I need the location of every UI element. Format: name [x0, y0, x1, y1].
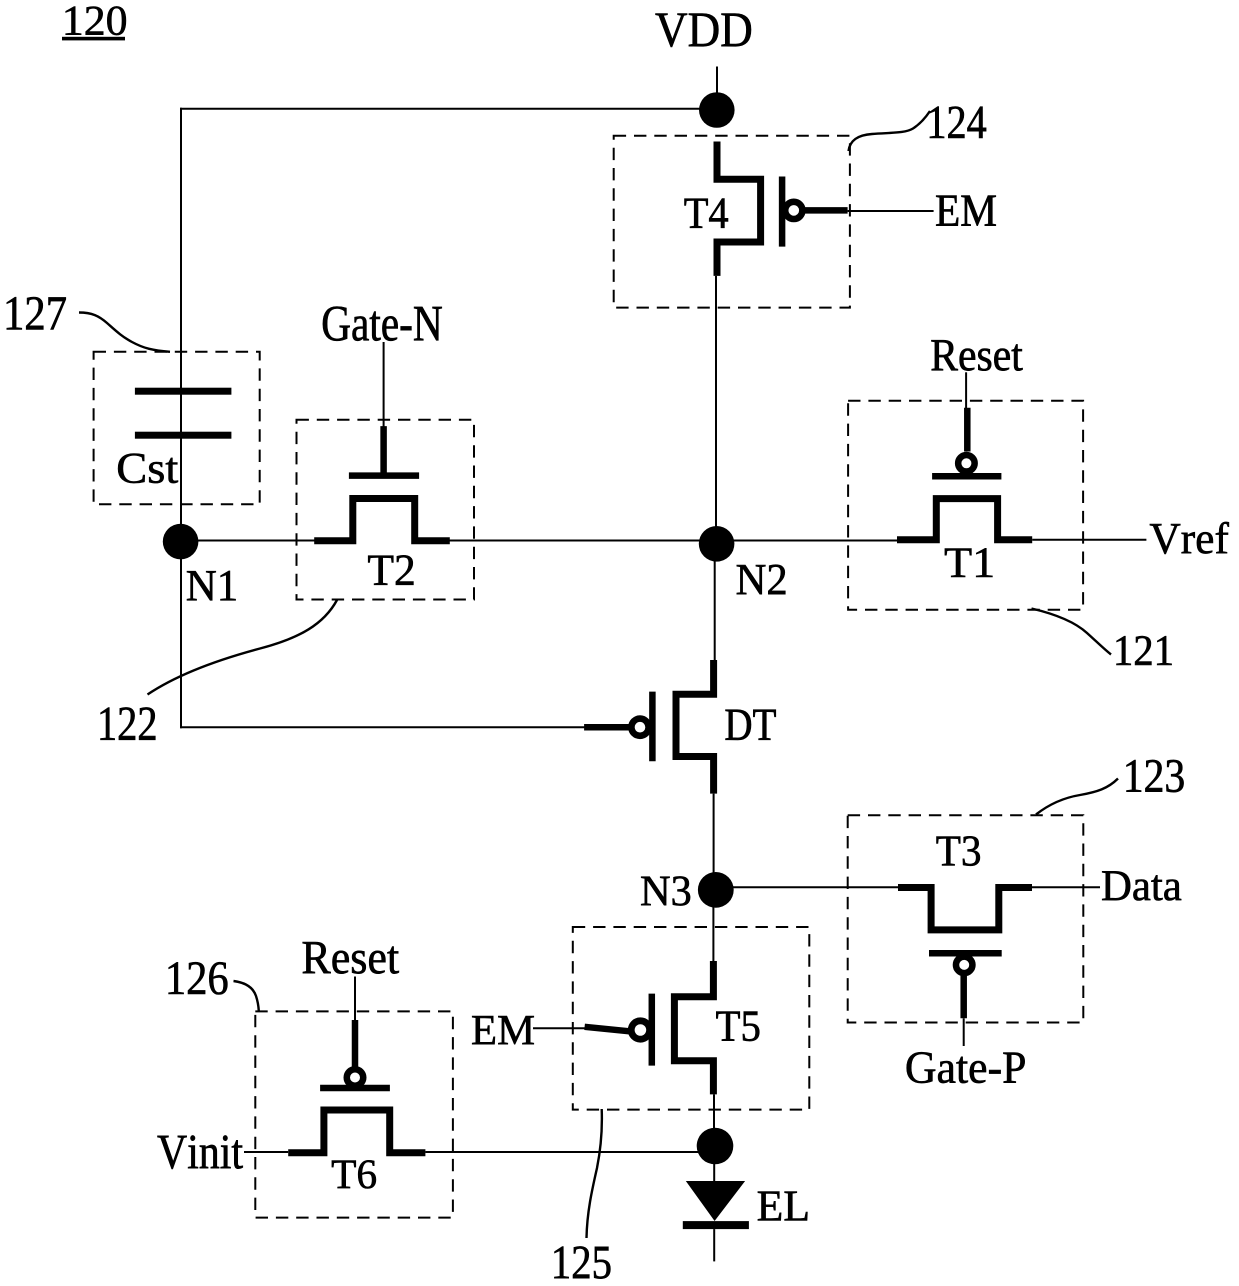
label Vref [1150, 522, 1229, 554]
node VDD junction [699, 92, 735, 128]
label T1 [945, 548, 993, 577]
wire top horizontal from VDD node to left branch [180, 108, 717, 110]
label 126 [169, 962, 228, 994]
wire T3 to Data [1032, 886, 1100, 888]
dashed box 124 (T4) [614, 136, 850, 308]
dashed box 123 (T3) [848, 815, 1084, 1022]
wire Gate-P lead [963, 1018, 965, 1046]
wire node to diode [713, 1146, 715, 1182]
wire N2 to T1 [717, 540, 898, 542]
label EL [758, 1192, 808, 1221]
transistor T2 [314, 426, 450, 541]
wire T1 to Vref [1032, 539, 1146, 541]
label T6 [332, 1160, 376, 1188]
wire left vertical branch x=181 [180, 108, 182, 728]
dashed box 121 (T1) [848, 401, 1083, 610]
leader 125 [587, 1109, 602, 1238]
label DT [726, 710, 776, 740]
wire N2 down to DT [714, 544, 716, 662]
leader 123 [1036, 779, 1118, 815]
label T5 [716, 1012, 759, 1042]
label T3 [937, 836, 980, 866]
label EM (T4) [936, 196, 996, 226]
node EL anode junction [697, 1128, 734, 1165]
capacitor Cst [135, 388, 232, 439]
label Data [1102, 871, 1181, 900]
label N2 [737, 565, 786, 595]
label 124 [930, 107, 986, 139]
wire Reset lead (T1) [965, 372, 967, 409]
label T2 [368, 555, 413, 585]
label 120 (figure reference, underlined) [62, 6, 126, 40]
label 122 [101, 707, 156, 739]
label 121 [1117, 636, 1172, 665]
label T4 [685, 199, 729, 228]
label Vinit [158, 1135, 243, 1169]
transistor T5 [585, 961, 714, 1094]
label 125 [554, 1246, 610, 1278]
label 123 [1127, 760, 1184, 792]
wire DT source down to N3 [713, 794, 715, 890]
transistor DT [584, 660, 714, 794]
dashed box 122 (T2) [297, 420, 475, 600]
wire EM to T5 gate [533, 1027, 585, 1029]
leader 121 [1032, 609, 1112, 655]
wire bottom horizontal to DT gate [180, 726, 585, 728]
VDD net label [656, 14, 752, 48]
wire VDD lead down to node [716, 67, 718, 111]
label 127 [7, 297, 66, 329]
node N3 [698, 872, 734, 908]
transistor T1 [897, 408, 1032, 540]
wire T6 to EL node [425, 1151, 714, 1153]
node N2 [699, 526, 735, 562]
label Gate-N [323, 307, 442, 341]
label N3 [641, 876, 690, 905]
transistor T6 [288, 1020, 425, 1153]
wire T5 source down to EL node [713, 1094, 715, 1148]
wire N3 down to T5 [712, 890, 714, 963]
label Gate-P [907, 1052, 1025, 1083]
diode EL cathode bar [683, 1221, 749, 1229]
wire Gate-N lead [383, 342, 385, 428]
label N1 [187, 571, 236, 600]
dashed box 127 (Cst) [94, 352, 260, 505]
leader 127 [79, 313, 170, 352]
leader 124 [849, 111, 931, 151]
wire T4 source down to N2 [715, 276, 717, 544]
transistor T4 [717, 142, 848, 276]
diode EL (triangle) [687, 1182, 744, 1221]
leader 122 [148, 600, 338, 695]
wire N1 to T2 [181, 540, 317, 542]
wire N3 to T3 [716, 886, 898, 888]
label Reset (T6) [303, 942, 399, 974]
wire T2 to N2 [449, 540, 717, 542]
transistor T3 [898, 888, 1032, 1019]
label EM (T5) [472, 1016, 534, 1044]
dashed box 126 (T6) [255, 1011, 453, 1217]
wire T4 to EM [848, 210, 934, 212]
wire Reset lead (T6) [354, 977, 356, 1022]
leader 126 [234, 981, 259, 1011]
node N1 [163, 524, 199, 560]
wire EL cathode down [713, 1229, 715, 1261]
wire Vinit to T6 [244, 1151, 288, 1153]
value label Cst [118, 454, 178, 484]
label Reset (T1) [931, 340, 1022, 371]
dashed box 125 (T5) [573, 927, 810, 1110]
